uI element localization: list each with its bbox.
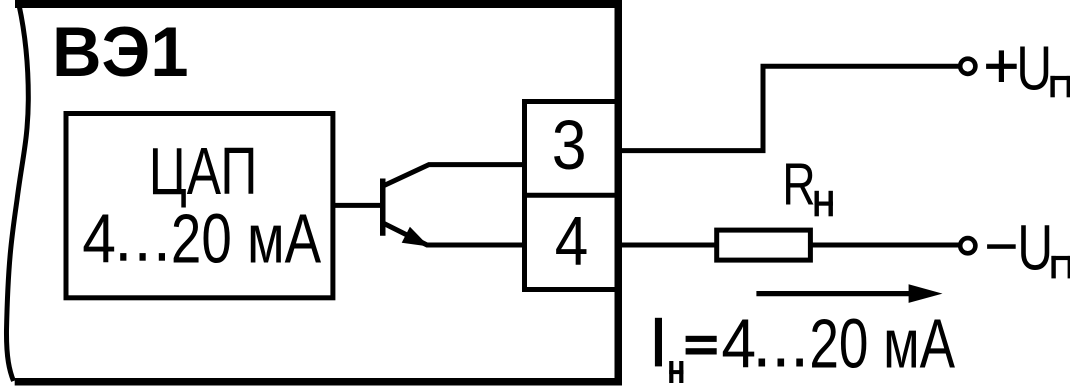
svg-text:20 мА: 20 мА [809, 304, 955, 382]
svg-text:20 мА: 20 мА [171, 199, 322, 277]
svg-text:U: U [1016, 35, 1052, 104]
svg-text:ВЭ1: ВЭ1 [52, 12, 189, 91]
svg-text:R: R [782, 151, 815, 218]
svg-text:U: U [1017, 212, 1053, 284]
svg-text:4: 4 [721, 304, 756, 382]
svg-text:ЦАП: ЦАП [149, 134, 258, 209]
svg-text:4: 4 [82, 199, 116, 277]
svg-text:4: 4 [555, 202, 589, 280]
svg-text:3: 3 [552, 106, 587, 184]
